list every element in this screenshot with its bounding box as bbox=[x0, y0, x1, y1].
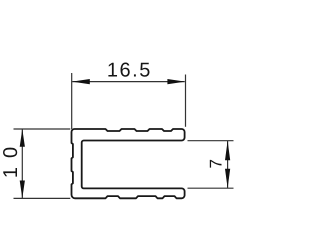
dim line 10 (vertical left) bbox=[21, 129, 23, 198]
extension line bottom (7) bbox=[188, 187, 234, 189]
arrow up (7) bbox=[225, 141, 230, 161]
dim line 16.5 (horizontal) bbox=[72, 81, 185, 83]
arrow left (16.5) bbox=[72, 79, 90, 84]
arrow right (16.5) bbox=[167, 79, 185, 84]
svg-text:16.5: 16.5 bbox=[107, 60, 152, 82]
extension line bottom (10) bbox=[14, 197, 71, 199]
extension line left (16.5) bbox=[71, 73, 73, 129]
dim line 7 (vertical right) bbox=[227, 141, 229, 188]
arrow down (10) bbox=[20, 181, 25, 199]
profile outline (U-channel cross-section) bbox=[72, 129, 185, 198]
svg-text:10: 10 bbox=[0, 138, 22, 178]
extension line top (7) bbox=[188, 140, 234, 142]
svg-text:7: 7 bbox=[207, 159, 226, 168]
extension line top (10) bbox=[14, 128, 71, 130]
extension line right (16.5) bbox=[185, 75, 187, 127]
arrow down (7) bbox=[225, 169, 230, 189]
arrow up (10) bbox=[20, 129, 25, 147]
